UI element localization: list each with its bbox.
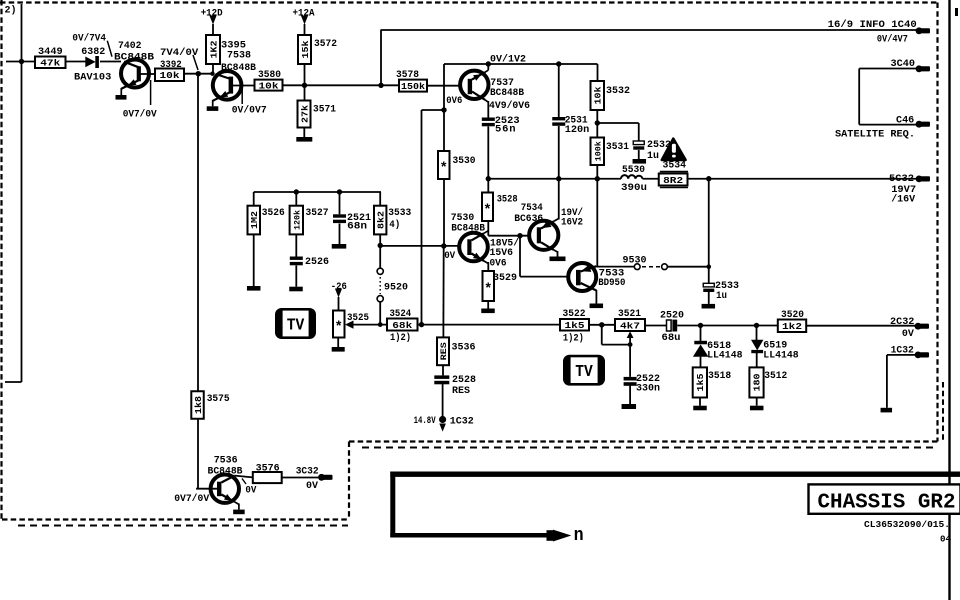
- svg-text:1u: 1u: [647, 150, 659, 162]
- svg-text:5530: 5530: [622, 164, 645, 176]
- svg-text:2C32: 2C32: [890, 316, 914, 328]
- svg-text:4): 4): [389, 219, 400, 231]
- svg-text:0V7/0V: 0V7/0V: [123, 109, 158, 121]
- svg-text:3532: 3532: [606, 85, 630, 97]
- svg-text:7538: 7538: [227, 50, 251, 62]
- svg-text:4k7: 4k7: [620, 320, 640, 331]
- svg-text:0V/0V7: 0V/0V7: [232, 105, 267, 117]
- svg-text:3449: 3449: [38, 46, 63, 58]
- svg-text:0V7/0V: 0V7/0V: [174, 493, 210, 505]
- svg-text:7536: 7536: [214, 455, 238, 467]
- svg-text:27k: 27k: [299, 105, 310, 123]
- svg-text:3530: 3530: [453, 155, 476, 167]
- svg-text:C46: C46: [896, 115, 914, 127]
- svg-text:1)2): 1)2): [563, 333, 584, 345]
- svg-text:2): 2): [5, 5, 17, 17]
- svg-text:RES: RES: [439, 342, 449, 360]
- svg-text:3578: 3578: [396, 69, 419, 81]
- svg-text:0V: 0V: [306, 480, 319, 492]
- svg-text:1C32: 1C32: [450, 416, 474, 428]
- svg-text:120n: 120n: [565, 124, 590, 136]
- svg-text:*: *: [484, 282, 492, 298]
- svg-text:15k: 15k: [300, 40, 311, 58]
- svg-text:RES: RES: [452, 385, 470, 397]
- svg-text:LL4148: LL4148: [763, 350, 798, 362]
- svg-text:BAV103: BAV103: [74, 71, 111, 83]
- svg-text:3512: 3512: [764, 370, 787, 382]
- svg-text:LL4148: LL4148: [707, 350, 742, 362]
- svg-text:CHASSIS GR2: CHASSIS GR2: [818, 492, 956, 515]
- svg-text:*: *: [440, 161, 448, 177]
- svg-text:3529: 3529: [493, 272, 517, 284]
- svg-text:68u: 68u: [662, 332, 681, 344]
- svg-text:/16V: /16V: [891, 194, 916, 206]
- svg-text:CL36532090/015.: CL36532090/015.: [864, 519, 950, 530]
- svg-text:10k: 10k: [593, 86, 604, 104]
- svg-text:0V/7V4: 0V/7V4: [72, 33, 106, 45]
- svg-text:10k: 10k: [259, 81, 279, 92]
- svg-text:BC848B: BC848B: [490, 87, 525, 99]
- svg-text:9520: 9520: [384, 282, 408, 294]
- svg-text:n: n: [574, 526, 584, 546]
- svg-text:100k: 100k: [593, 141, 603, 161]
- svg-text:3533: 3533: [388, 207, 411, 219]
- svg-text:56n: 56n: [495, 124, 516, 136]
- svg-text:3580: 3580: [258, 69, 281, 81]
- svg-text:1k2: 1k2: [782, 321, 802, 332]
- svg-text:1)2): 1)2): [390, 332, 411, 344]
- svg-text:1M2: 1M2: [250, 211, 260, 229]
- svg-text:3392: 3392: [160, 59, 182, 71]
- svg-text:1u: 1u: [716, 290, 727, 302]
- svg-text:1k5: 1k5: [696, 373, 706, 391]
- svg-text:180: 180: [753, 373, 763, 391]
- svg-text:3528: 3528: [497, 194, 518, 206]
- svg-text:0V/4V7: 0V/4V7: [877, 34, 908, 46]
- svg-text:3518: 3518: [708, 370, 731, 382]
- svg-text:330n: 330n: [636, 383, 660, 395]
- svg-text:3571: 3571: [313, 104, 336, 116]
- svg-text:3522: 3522: [563, 308, 586, 320]
- svg-text:0V: 0V: [245, 485, 257, 497]
- svg-text:68n: 68n: [347, 221, 367, 233]
- svg-text:3524: 3524: [390, 308, 412, 320]
- svg-text:BD950: BD950: [598, 277, 625, 289]
- svg-text:*: *: [335, 320, 343, 336]
- svg-text:TV: TV: [575, 363, 593, 382]
- svg-text:1k5: 1k5: [565, 320, 585, 331]
- svg-text:*: *: [483, 202, 491, 218]
- svg-text:04: 04: [940, 534, 951, 545]
- svg-text:2526: 2526: [305, 256, 329, 268]
- svg-text:14.8V: 14.8V: [414, 415, 436, 427]
- svg-text:8R2: 8R2: [663, 175, 683, 186]
- svg-text:4V9/0V6: 4V9/0V6: [489, 100, 530, 112]
- svg-text:2520: 2520: [660, 310, 684, 322]
- svg-text:3520: 3520: [781, 309, 804, 321]
- svg-text:16/9 INFO 1C40: 16/9 INFO 1C40: [828, 19, 917, 31]
- svg-text:10k: 10k: [160, 70, 180, 81]
- svg-text:1k8: 1k8: [194, 396, 204, 414]
- svg-text:SATELITE REQ.: SATELITE REQ.: [835, 128, 915, 140]
- svg-text:0V6: 0V6: [490, 257, 507, 269]
- svg-text:3C32: 3C32: [296, 465, 319, 477]
- svg-text:3526: 3526: [262, 207, 285, 219]
- svg-text:120k: 120k: [292, 210, 302, 230]
- svg-text:6382: 6382: [81, 46, 105, 58]
- svg-text:3534: 3534: [663, 160, 687, 172]
- svg-text:3572: 3572: [314, 38, 337, 50]
- svg-text:3575: 3575: [207, 393, 230, 405]
- svg-text:390u: 390u: [621, 182, 647, 194]
- svg-text:68k: 68k: [392, 320, 412, 331]
- svg-text:TV: TV: [287, 316, 305, 335]
- svg-text:9530: 9530: [623, 255, 647, 267]
- svg-text:3C40: 3C40: [891, 58, 916, 70]
- svg-text:3531: 3531: [606, 141, 629, 153]
- svg-text:16V2: 16V2: [561, 217, 583, 229]
- svg-text:150k: 150k: [401, 82, 426, 92]
- svg-text:0V: 0V: [444, 250, 456, 262]
- svg-text:8k2: 8k2: [376, 211, 386, 229]
- svg-text:3536: 3536: [452, 342, 476, 354]
- svg-text:0V6: 0V6: [446, 95, 462, 107]
- svg-text:1K2: 1K2: [208, 40, 219, 58]
- svg-text:3527: 3527: [306, 207, 329, 219]
- svg-text:47k: 47k: [40, 58, 60, 69]
- svg-text:7402: 7402: [118, 40, 142, 52]
- svg-text:0V: 0V: [902, 328, 915, 340]
- svg-text:3521: 3521: [618, 308, 641, 320]
- svg-text:3576: 3576: [256, 463, 280, 475]
